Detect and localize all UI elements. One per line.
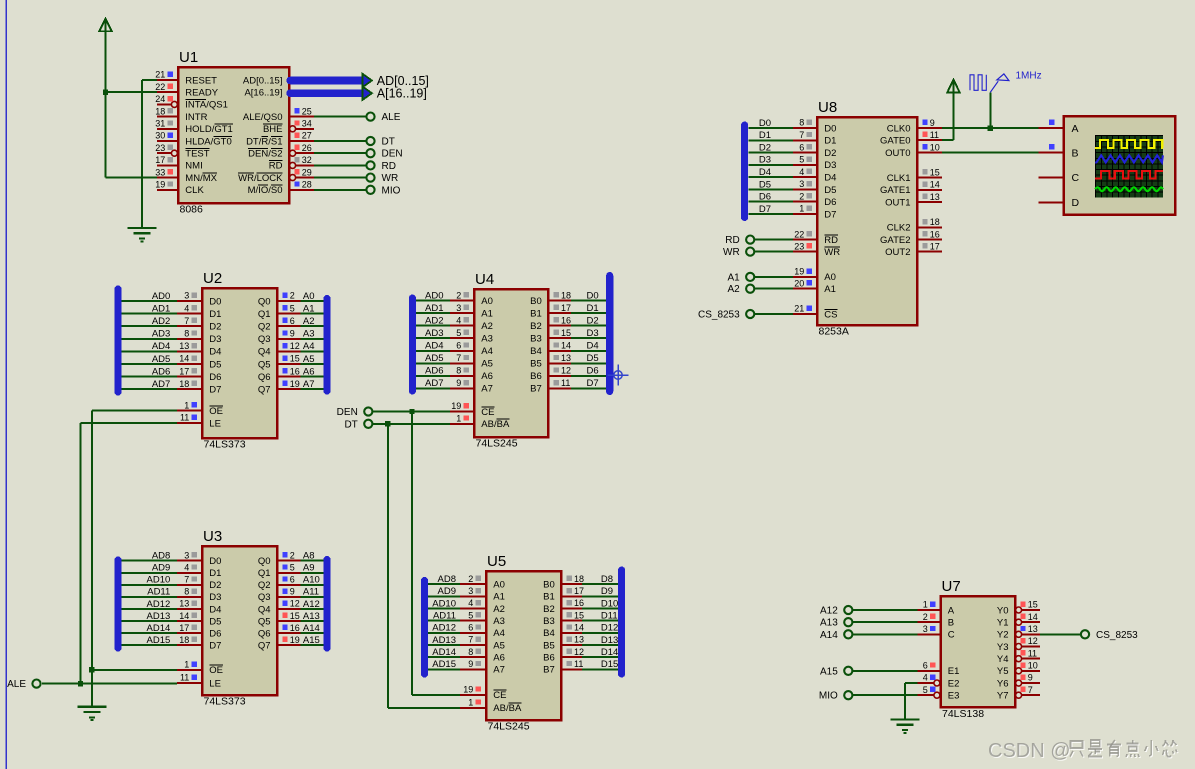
svg-text:D13: D13 [601, 635, 618, 646]
svg-text:U1: U1 [179, 49, 198, 66]
svg-text:4: 4 [799, 167, 804, 177]
sheet border line (left edge) [5, 0, 7, 769]
U1 pin CLK (19) [155, 180, 204, 197]
wire A6 net segment [416, 375, 450, 377]
svg-text:E2: E2 [948, 678, 960, 689]
U8 pin D1 (7) [793, 130, 836, 147]
svg-text:OUT0: OUT0 [885, 148, 910, 159]
svg-text:OE: OE [209, 665, 223, 676]
net label D0 [587, 290, 599, 301]
chip U7 (74LS138) body [941, 596, 1016, 707]
net label A14 [303, 623, 320, 634]
net label D2 [759, 142, 771, 153]
svg-text:74LS245: 74LS245 [488, 721, 530, 733]
wire Q4 net segment [301, 350, 324, 352]
svg-text:Q5: Q5 [258, 359, 271, 370]
wire A1 net segment [428, 595, 460, 597]
scope trace C red square wave [1095, 171, 1163, 179]
wire D5 net segment [749, 188, 793, 190]
wire A1 net segment [755, 288, 794, 290]
svg-text:15: 15 [930, 167, 940, 177]
svg-text:14: 14 [574, 623, 584, 633]
svg-text:B4: B4 [530, 346, 542, 357]
wire A7 net segment [416, 387, 450, 389]
wire D7 net segment [122, 388, 178, 390]
net label AD6 [425, 366, 443, 377]
svg-text:13: 13 [179, 341, 189, 351]
wire Q6 net segment [301, 376, 324, 378]
net label AD5 [425, 353, 443, 364]
oscilloscope pin C [1039, 172, 1080, 184]
net label AD4 [152, 341, 170, 352]
power terminal VCC (near U1) [99, 19, 111, 32]
net label AD9 [438, 586, 456, 597]
net label D0 [759, 118, 771, 129]
net label AD2 [425, 315, 443, 326]
wire Y2 to CS_8253 terminal [1040, 633, 1081, 635]
net label AD9 [152, 563, 170, 574]
U8 pin D2 (6) [793, 142, 836, 159]
net label D12 [601, 623, 618, 634]
svg-text:HLDA/GT0: HLDA/GT0 [185, 136, 231, 147]
net label D3 [587, 328, 599, 339]
net label A4 [303, 341, 315, 352]
svg-text:3: 3 [184, 550, 189, 560]
wire DEN2 net: DEN terminal to U4 CE pin 19 [373, 411, 451, 413]
U1 pin INTR (18) [155, 106, 207, 123]
wire B1 net segment [582, 595, 618, 597]
svg-text:CS_8253: CS_8253 [1096, 630, 1138, 641]
svg-text:WR/LOCK: WR/LOCK [238, 173, 283, 184]
wire B0 net segment [582, 583, 618, 585]
svg-text:16: 16 [290, 366, 300, 376]
svg-text:6: 6 [290, 575, 295, 585]
U3 pin D6 (17) [177, 623, 221, 640]
U8 pin CLK1 (15) [887, 167, 942, 184]
svg-text:U5: U5 [487, 553, 506, 570]
svg-text:Y3: Y3 [997, 642, 1009, 653]
terminal ALE (near U3) [7, 679, 41, 690]
svg-text:AD8: AD8 [152, 551, 170, 562]
terminal A12 [820, 606, 852, 617]
svg-text:D3: D3 [587, 328, 599, 339]
U5 pin A5 (7) [460, 635, 505, 652]
svg-text:AD11: AD11 [147, 587, 170, 598]
svg-text:A7: A7 [493, 665, 505, 676]
svg-text:AD2: AD2 [152, 316, 170, 327]
U2 pin OE (1) [177, 400, 223, 417]
svg-text:5: 5 [799, 155, 804, 165]
svg-text:B7: B7 [543, 665, 555, 676]
svg-text:A7: A7 [481, 384, 493, 395]
svg-text:34: 34 [302, 119, 312, 129]
svg-text:A15: A15 [303, 635, 320, 646]
svg-text:D: D [1072, 197, 1080, 209]
svg-text:21: 21 [155, 70, 165, 80]
U2 pin D1 (4) [177, 303, 221, 320]
net label D4 [759, 167, 771, 178]
svg-text:1: 1 [468, 698, 473, 708]
svg-text:22: 22 [155, 82, 165, 92]
wire D4 net segment [749, 176, 793, 178]
U2 pin Q6 (16) [258, 366, 301, 383]
svg-text:1: 1 [799, 204, 804, 214]
U1 pin RESET (21) [155, 70, 217, 87]
svg-text:U3: U3 [203, 528, 222, 545]
svg-text:D1: D1 [209, 568, 221, 579]
svg-text:2: 2 [290, 550, 295, 560]
svg-text:Y4: Y4 [997, 654, 1009, 665]
svg-text:A3: A3 [303, 329, 315, 340]
svg-text:B: B [948, 618, 954, 629]
svg-text:A1: A1 [303, 303, 315, 314]
svg-text:D0: D0 [587, 290, 599, 301]
net label A15 [303, 635, 320, 646]
chip U1 (8086) body [178, 67, 289, 203]
svg-text:C: C [948, 630, 955, 641]
U4 pin A0 (2) [450, 290, 493, 307]
wire ALE net: U1 pin 25 to ALE terminal [314, 116, 367, 118]
wire D7 net segment [122, 644, 178, 646]
U5 pin B1 (17) [543, 586, 584, 603]
U4 pin B5 (13) [530, 353, 571, 370]
wire D7 net segment [749, 213, 793, 215]
svg-text:12: 12 [574, 647, 584, 657]
svg-text:D1: D1 [759, 130, 771, 141]
wire B3 net segment [582, 620, 618, 622]
wire B3 net segment [571, 337, 606, 339]
svg-text:A4: A4 [493, 628, 505, 639]
svg-text:D1: D1 [209, 309, 221, 320]
watermark CSDN @只是有点小怂 [988, 740, 1178, 763]
svg-text:AD2: AD2 [425, 315, 443, 326]
terminal A2 (U8) [727, 284, 754, 295]
wire MIO2 terminal to U7 pin E3 [853, 694, 918, 696]
wire B2 net segment [582, 608, 618, 610]
svg-text:Q2: Q2 [258, 322, 271, 333]
wire Q7 net segment [301, 388, 324, 390]
net label D1 [759, 130, 771, 141]
svg-text:4: 4 [456, 315, 461, 325]
svg-text:A2: A2 [727, 284, 740, 295]
U1 pin MN/MX (33) [155, 167, 217, 184]
svg-text:17: 17 [155, 155, 165, 165]
svg-text:A12: A12 [820, 606, 838, 617]
wire LE vertical down to ALE row [80, 423, 82, 684]
wire ALE terminal to U3 LE pin [42, 683, 177, 685]
svg-text:WR: WR [824, 247, 840, 258]
svg-text:RD: RD [269, 161, 283, 172]
svg-text:5: 5 [468, 610, 473, 620]
U1 pin TEST (23) [155, 143, 209, 160]
wire Q1 net segment [301, 313, 324, 315]
oscilloscope pin D [1039, 197, 1080, 209]
wire Q2 net segment [301, 584, 324, 586]
wire DEN2 to U5 CE pin 19 [412, 694, 460, 696]
svg-text:21: 21 [794, 304, 804, 314]
svg-text:12: 12 [561, 366, 571, 376]
U5 pin A2 (4) [460, 598, 505, 615]
wire D1 net segment [122, 572, 178, 574]
terminal DEN (U1) [366, 149, 402, 160]
svg-text:AD11: AD11 [433, 610, 456, 621]
wire D2 net segment [122, 584, 178, 586]
net label A9 [303, 563, 315, 574]
svg-text:Q7: Q7 [258, 385, 271, 396]
U2 pin D0 (3) [177, 291, 221, 308]
svg-text:AD5: AD5 [425, 353, 443, 364]
svg-text:D4: D4 [759, 167, 771, 178]
svg-text:MIO: MIO [819, 691, 838, 702]
U1 pin DT/R/S1 (27) [246, 131, 314, 148]
U8 pin D0 (8) [793, 118, 836, 135]
svg-text:2: 2 [468, 574, 473, 584]
net label AD14 [432, 647, 456, 658]
svg-text:D4: D4 [587, 341, 599, 352]
svg-text:A1: A1 [727, 272, 740, 283]
svg-text:2: 2 [923, 612, 928, 622]
power terminal VCC (near U8) [947, 80, 959, 93]
net label D10 [601, 598, 618, 609]
net label D15 [601, 659, 618, 670]
svg-text:A7: A7 [303, 379, 315, 390]
scope input square A [1049, 120, 1054, 125]
wire B2 net segment [571, 325, 606, 327]
svg-text:28: 28 [302, 180, 312, 190]
U4 pin A3 (5) [450, 328, 493, 345]
svg-text:D7: D7 [209, 385, 221, 396]
svg-text:B2: B2 [530, 321, 542, 332]
svg-text:AD0: AD0 [152, 291, 170, 302]
U2 pin Q3 (9) [258, 329, 301, 346]
terminal WR (U8) [723, 247, 754, 258]
svg-text:D9: D9 [601, 586, 613, 597]
U2 pin D5 (14) [177, 354, 221, 371]
bus U4 left (AD0..AD7) [409, 295, 416, 395]
net label AD7 [425, 378, 443, 389]
svg-text:30: 30 [155, 131, 165, 141]
bus arrow AD[0..15] [362, 74, 372, 88]
net label AD8 [152, 551, 170, 562]
svg-text:8: 8 [799, 118, 804, 128]
wire B1 net segment [571, 312, 606, 314]
net label A12 [303, 599, 320, 610]
svg-text:D4: D4 [209, 604, 221, 615]
wire LE net: U2 LE to vertical [81, 422, 178, 424]
svg-text:WR: WR [723, 247, 740, 258]
bus U3 right (A8..A15) [323, 556, 330, 652]
svg-text:M/IO/S0: M/IO/S0 [248, 185, 283, 196]
net label A7 [303, 379, 315, 390]
svg-text:7: 7 [1028, 685, 1033, 695]
U7 pin Y2 (13) [997, 624, 1040, 641]
svg-text:A[16..19]: A[16..19] [244, 88, 282, 99]
wire D5 net segment [122, 363, 178, 365]
net label AD13 [432, 635, 456, 646]
wire D2 net segment [122, 325, 178, 327]
svg-text:A4: A4 [481, 346, 493, 357]
net label A1 [303, 303, 315, 314]
net label D3 [759, 155, 771, 166]
svg-text:AD12: AD12 [432, 623, 456, 634]
svg-text:D1: D1 [824, 136, 836, 147]
svg-text:9: 9 [930, 118, 935, 128]
wire D3 net segment [749, 164, 793, 166]
net label AD5 [152, 354, 170, 365]
wire Q5 net segment [301, 620, 324, 622]
svg-text:Q6: Q6 [258, 628, 271, 639]
svg-text:AD3: AD3 [152, 329, 170, 340]
svg-text:18: 18 [574, 574, 584, 584]
svg-text:AD0: AD0 [425, 290, 443, 301]
U8 reference label [818, 99, 837, 116]
U5 value label 74LS245 [488, 721, 530, 733]
net label AD4 [425, 341, 443, 352]
wire Q5 net segment [301, 363, 324, 365]
U3 pin D1 (4) [177, 562, 221, 579]
U4 pin B6 (12) [530, 366, 571, 383]
wire B5 net segment [582, 644, 618, 646]
svg-text:11: 11 [180, 413, 189, 423]
svg-text:7: 7 [468, 635, 473, 645]
wire A14 terminal to U7 pin C [853, 633, 918, 635]
svg-text:Q0: Q0 [258, 556, 271, 567]
chip U2 (74LS373) body [202, 288, 277, 438]
svg-text:OE: OE [209, 406, 223, 417]
svg-text:U7: U7 [942, 578, 961, 595]
U4 value label 74LS245 [476, 438, 518, 450]
net label AD3 [425, 328, 443, 339]
svg-text:D0: D0 [209, 556, 221, 567]
U8 pin D6 (2) [793, 191, 836, 208]
svg-text:9: 9 [468, 659, 473, 669]
wire A3 net segment [428, 620, 460, 622]
U7 pin B (2) [918, 612, 955, 629]
svg-text:DT: DT [344, 419, 357, 430]
svg-text:A0: A0 [481, 296, 493, 307]
svg-text:D3: D3 [209, 334, 221, 345]
U2 reference label [203, 270, 222, 287]
svg-text:3: 3 [456, 303, 461, 313]
svg-text:D10: D10 [601, 598, 618, 609]
scope trace A yellow square wave [1095, 140, 1163, 148]
svg-text:ALE: ALE [7, 679, 26, 690]
wire DT2 net: DT terminal to U4 AB/BA pin 1 [373, 423, 451, 425]
svg-text:A3: A3 [493, 616, 505, 627]
svg-text:OUT2: OUT2 [885, 247, 910, 258]
svg-text:8253A: 8253A [819, 326, 849, 338]
svg-text:AD[0..15]: AD[0..15] [243, 75, 283, 86]
svg-text:AD10: AD10 [432, 598, 456, 609]
svg-text:RESET: RESET [185, 75, 217, 86]
U4 pin CE (19) [450, 401, 495, 418]
svg-text:DEN: DEN [337, 407, 358, 418]
svg-text:18: 18 [561, 290, 571, 300]
U4 pin B0 (18) [530, 290, 571, 307]
svg-text:Q7: Q7 [258, 640, 271, 651]
U8 pin A0 (19) [793, 267, 836, 284]
wire Q1 net segment [301, 572, 324, 574]
svg-text:AD1: AD1 [425, 303, 443, 314]
U8 pin D3 (5) [793, 155, 836, 172]
svg-text:8: 8 [456, 366, 461, 376]
svg-text:20: 20 [794, 278, 804, 288]
wire D3 net segment [122, 596, 178, 598]
terminal ALE (U1) [366, 112, 400, 123]
U4 pin A4 (6) [450, 340, 493, 357]
svg-text:INTA/QS1: INTA/QS1 [185, 100, 228, 111]
svg-text:A13: A13 [303, 611, 320, 622]
net label A5 [303, 354, 315, 365]
wire A13 terminal to U7 pin B [853, 621, 918, 623]
svg-text:19: 19 [794, 267, 804, 277]
svg-text:WR: WR [382, 173, 399, 184]
svg-text:D6: D6 [587, 366, 599, 377]
scope input square B [1049, 144, 1054, 149]
svg-text:13: 13 [930, 192, 940, 202]
svg-text:27: 27 [302, 131, 312, 141]
svg-text:INTR: INTR [185, 112, 207, 123]
net label A3 [303, 329, 315, 340]
svg-text:AD13: AD13 [432, 635, 456, 646]
terminal CS_8253 (out) [1081, 630, 1138, 641]
svg-text:Q6: Q6 [258, 372, 271, 383]
wire A4 net segment [416, 350, 450, 352]
svg-text:AD1: AD1 [152, 303, 170, 314]
svg-text:CS: CS [824, 309, 837, 320]
U8 pin D5 (3) [793, 179, 836, 196]
U4 pin A5 (7) [450, 353, 493, 370]
U5 pin A4 (6) [460, 623, 505, 640]
U7 pin Y0 (15) [997, 600, 1040, 617]
net label AD10 [432, 598, 456, 609]
svg-text:Y1: Y1 [997, 617, 1009, 628]
U4 pin B2 (16) [530, 315, 571, 332]
U3 value label 74LS373 [204, 696, 246, 708]
svg-text:CS_8253: CS_8253 [698, 310, 740, 321]
U1 reference label [179, 49, 198, 66]
U2 pin LE (11) [177, 413, 221, 430]
svg-text:D15: D15 [601, 659, 618, 670]
svg-text:15: 15 [290, 354, 300, 364]
svg-text:11: 11 [1028, 648, 1037, 658]
svg-text:15: 15 [574, 610, 584, 620]
net label D5 [587, 353, 599, 364]
wire Q3 net segment [301, 596, 324, 598]
svg-text:13: 13 [1028, 624, 1038, 634]
svg-text:14: 14 [179, 354, 189, 364]
wire RD net segment [755, 239, 794, 241]
svg-text:A2: A2 [303, 316, 315, 327]
svg-text:D7: D7 [759, 204, 771, 215]
U3 pin D5 (14) [177, 611, 221, 628]
U4 reference label [475, 271, 494, 288]
net label AD14 [147, 623, 171, 634]
wire A5 net segment [428, 644, 460, 646]
svg-text:32: 32 [302, 155, 312, 165]
wire A3 net segment [416, 337, 450, 339]
svg-text:2: 2 [799, 191, 804, 201]
wire A7 net segment [428, 668, 460, 670]
wire OE vertical down to ground [91, 411, 93, 707]
svg-text:AD14: AD14 [432, 647, 456, 658]
svg-text:18: 18 [179, 379, 189, 389]
wire D4 net segment [122, 350, 178, 352]
svg-text:B2: B2 [543, 604, 555, 615]
svg-text:17: 17 [179, 623, 189, 633]
wire Q0 net segment [301, 300, 324, 302]
svg-text:B4: B4 [543, 628, 555, 639]
